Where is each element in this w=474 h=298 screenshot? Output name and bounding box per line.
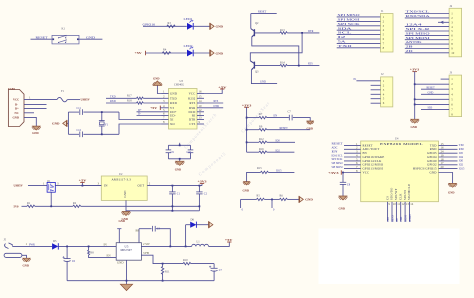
left net labels (332, 143, 343, 169)
svg-text:SPI SCK: SPI SCK (338, 23, 360, 26)
wire pin4 (337, 29, 381, 31)
wire (67, 280, 214, 282)
diode D5 (52, 240, 116, 250)
wire VCC (24, 99, 57, 101)
wire pin3 (421, 88, 449, 90)
row IO2: wire (247, 151, 259, 153)
svg-text:GND: GND (260, 81, 266, 84)
svg-text:VCC: VCC (363, 170, 370, 174)
feedback network (141, 251, 222, 282)
svg-text:GND: GND (117, 261, 124, 265)
ground GND big (120, 284, 132, 290)
svg-text:10: 10 (451, 51, 455, 55)
wire cross-couple upper (250, 33, 302, 61)
svg-text:SD2/HOLD: SD2/HOLD (407, 183, 411, 200)
wire RTS (204, 102, 223, 104)
svg-text:GND: GND (339, 206, 345, 210)
stub mid (271, 199, 273, 208)
svg-text:D6: D6 (191, 218, 195, 221)
svg-text:RTS: RTS (308, 63, 313, 66)
svg-text:EN: EN (332, 151, 338, 154)
wire base Q3 (254, 65, 280, 67)
svg-text:GND: GND (428, 91, 434, 94)
svg-text:ESP8266 MODEL: ESP8266 MODEL (380, 142, 423, 146)
svg-text:RTS: RTS (190, 101, 196, 105)
svg-text:+5V: +5V (218, 85, 228, 89)
svg-text:SPI MOSI: SPI MOSI (406, 37, 430, 40)
svg-text:14: 14 (410, 202, 414, 206)
svg-text:TX0: TX0 (459, 144, 465, 147)
LED row 1 (143, 18, 224, 30)
wire bottom branch (68, 133, 79, 135)
svg-text:5V0: 5V0 (14, 204, 20, 208)
svg-text:SPI MISO: SPI MISO (406, 33, 430, 36)
svg-text:16: 16 (199, 90, 203, 94)
svg-text:IN: IN (104, 184, 108, 188)
wire NC (24, 112, 34, 114)
top stub BS (138, 229, 140, 243)
ground GND left arrow (66, 122, 68, 124)
svg-text:RESET: RESET (427, 86, 436, 89)
power +5V port (220, 88, 224, 90)
svg-text:D+: D+ (138, 109, 142, 112)
fuse F1 (57, 90, 91, 102)
diode D6 catch (185, 225, 187, 247)
wire (79, 38, 102, 40)
wire (83, 133, 119, 135)
ground GND right (449, 183, 457, 187)
svg-text:MOSI: MOSI (405, 215, 408, 222)
wire pin6 (405, 34, 449, 36)
svg-text:TXD: TXD (170, 96, 177, 100)
wire gate (50, 192, 52, 206)
transistor auto-program network (250, 11, 319, 84)
wire (209, 242, 230, 246)
svg-text:RXD: RXD (110, 100, 116, 103)
bottom net labels rotated (387, 214, 412, 222)
svg-text:GND: GND (119, 219, 125, 223)
svg-text:AMS1117-3.3: AMS1117-3.3 (112, 178, 132, 182)
converter U5 MP2307 (88, 219, 142, 291)
stub left (240, 199, 242, 208)
svg-text:SCL: SCL (338, 32, 353, 35)
wire (83, 111, 119, 113)
wire (250, 14, 252, 29)
svg-text:XI: XI (170, 118, 174, 122)
ground GND (307, 121, 313, 124)
svg-text:12: 12 (402, 202, 406, 206)
svg-text:SPI MOSI: SPI MOSI (338, 19, 360, 22)
svg-text:GND: GND (52, 122, 60, 126)
wire base Q2 (254, 32, 280, 34)
wire pin6 (371, 102, 381, 104)
svg-text:GND: GND (411, 125, 417, 129)
IC U3 CH340G (153, 77, 228, 129)
svg-text:LED2: LED2 (184, 45, 194, 48)
svg-text:R18: R18 (127, 99, 132, 102)
capacitor pair C9 C10 (166, 143, 194, 172)
bottom pin numbers (388, 202, 413, 206)
svg-text:D-: D- (138, 113, 141, 116)
svg-text:5A: 5A (338, 41, 346, 44)
svg-text:GND: GND (170, 92, 178, 96)
capacitor C4 bootstrap (139, 226, 170, 247)
svg-text:GND: GND (123, 190, 127, 198)
svg-text:C11: C11 (77, 107, 82, 110)
svg-text:SPI SCK: SPI SCK (332, 158, 343, 161)
ground GND (23, 258, 30, 262)
svg-text:D+: D+ (15, 106, 19, 110)
ground GND power port (208, 221, 210, 228)
svg-text:R12: R12 (259, 138, 264, 141)
left pin names (363, 143, 385, 174)
svg-text:U3: U3 (180, 80, 184, 83)
capacitor C9 (166, 149, 172, 151)
svg-text:SDI/DI: SDI/DI (403, 190, 407, 200)
row IO0: wire (247, 141, 259, 143)
wire emitter Q2 (252, 38, 299, 66)
wire (55, 185, 101, 187)
svg-text:TX0/SCL: TX0/SCL (406, 11, 431, 14)
wire pin6 (415, 103, 449, 105)
wire pin8 (337, 47, 381, 49)
svg-text:GND: GND (153, 77, 159, 81)
wire DSR (204, 107, 223, 109)
resistor R11 vertical (162, 264, 164, 267)
bottom pin names rotated (385, 183, 411, 200)
svg-text:Q3: Q3 (255, 71, 259, 74)
left wires (344, 145, 361, 168)
svg-text:GND: GND (430, 170, 438, 174)
wire pin3 (371, 89, 381, 91)
wire pin5 (415, 98, 449, 100)
wire out (147, 185, 202, 187)
module U4 ESP8266 (328, 138, 465, 222)
svg-text:RESET: RESET (36, 36, 49, 39)
svg-text:DTR: DTR (189, 118, 196, 122)
svg-text:SDA: SDA (338, 27, 352, 30)
wire (247, 172, 261, 181)
ground GND power port (209, 23, 211, 30)
wire (12, 245, 52, 247)
svg-text:MISO: MISO (391, 215, 394, 222)
capacitor C7 output (213, 264, 215, 268)
wire D- (24, 104, 47, 106)
svg-text:13: 13 (406, 202, 410, 206)
ground rail bottom (67, 280, 214, 282)
svg-text:IO15: IO15 (459, 167, 465, 170)
power +3V3 port (201, 183, 203, 185)
R5 R6 row (241, 195, 313, 212)
regulator U2 AMS1117-3.3 (82, 173, 207, 221)
svg-text:TXD: TXD (110, 95, 116, 98)
svg-text:VCC: VCC (13, 98, 19, 102)
wire RXD (106, 102, 137, 104)
pin stubs left (162, 94, 169, 125)
stub up (179, 143, 181, 146)
svg-text:2 SW: 2 SW (143, 242, 150, 246)
wire pin3 (337, 25, 381, 27)
top stub SS to GND (118, 229, 120, 243)
pin stubs right (197, 94, 204, 125)
svg-text:CTS: CTS (189, 122, 195, 126)
svg-text:K1: K1 (62, 28, 66, 31)
Q1 power switch row (14, 179, 201, 209)
wire pin2 (415, 83, 449, 85)
wire pin2 (337, 20, 381, 22)
wire (58, 245, 116, 247)
capacitor C8 (342, 173, 344, 183)
ground GND under U2 (122, 212, 130, 216)
svg-text:IO15: IO15 (276, 170, 282, 173)
wire pin5 (337, 34, 381, 36)
crystal network (52, 107, 187, 137)
svg-text:NC: NC (15, 111, 19, 115)
svg-text:+5V: +5V (79, 179, 88, 183)
svg-text:20: 20 (441, 165, 445, 169)
wire U2 gnd pin (125, 200, 127, 211)
svg-text:R232: R232 (188, 96, 196, 100)
wire (81, 205, 200, 207)
wire pin7 (337, 42, 381, 44)
svg-text:RESET: RESET (258, 11, 267, 14)
wire rail (414, 72, 416, 120)
svg-text:U4: U4 (395, 138, 399, 141)
ground GND (411, 119, 419, 123)
svg-text:+3V3: +3V3 (410, 68, 420, 72)
wire XI jog (119, 112, 162, 119)
svg-text:+5V: +5V (150, 106, 158, 110)
capacitor C2 (198, 186, 200, 192)
wire GND (24, 117, 36, 126)
svg-text:WP: WP (396, 217, 399, 222)
svg-text:C12: C12 (77, 129, 82, 132)
left pin numbers (356, 142, 358, 173)
wire to ground (179, 159, 181, 161)
ground GND (176, 161, 184, 165)
svg-text:13: 13 (199, 116, 203, 120)
wire FB (141, 255, 183, 263)
junction (271, 199, 273, 201)
wire pin7 (421, 108, 449, 110)
svg-text:C10: C10 (187, 151, 192, 154)
wire in (82, 185, 101, 187)
wire (28, 185, 47, 187)
wire emitter Q3 (251, 70, 277, 84)
svg-text:EN: EN (274, 115, 278, 118)
wire TXD (106, 97, 137, 99)
svg-text:HOLD: HOLD (409, 214, 412, 222)
wire pin10 (405, 52, 449, 54)
wire pin4 (421, 93, 449, 95)
wire row2 (22, 205, 28, 207)
wire pin8 (405, 43, 449, 45)
watermark (183, 101, 271, 177)
svg-text:IO4: IO4 (459, 156, 464, 159)
white patch bottom right (319, 229, 460, 285)
svg-text:IO0: IO0 (276, 139, 281, 142)
wire ground rail (126, 210, 199, 212)
svg-text:GND: GND (23, 263, 29, 267)
wire pin9 (405, 48, 449, 50)
wire VCC row with +3V3 (342, 172, 361, 174)
svg-text:2D: 2D (406, 50, 413, 53)
svg-text:TX0: TX0 (338, 45, 354, 48)
svg-text:IO0: IO0 (459, 160, 464, 163)
wire (287, 65, 319, 67)
svg-text:IO5: IO5 (459, 152, 464, 155)
svg-text:RXD: RXD (170, 101, 178, 105)
svg-text:CS: CS (385, 196, 389, 200)
ground GND arrow up (153, 81, 161, 86)
svg-text:11: 11 (397, 202, 400, 206)
svg-text:R16: R16 (259, 148, 264, 151)
svg-text:XO: XO (170, 122, 175, 126)
ground GND power port (209, 50, 211, 57)
wire pin7 (405, 39, 449, 41)
svg-text:ANT0K: ANT0K (406, 41, 422, 44)
connector J2 6-pin (354, 73, 393, 107)
wire left vertical (67, 112, 69, 134)
svg-text:SPI MOSI: SPI MOSI (332, 166, 343, 169)
junction (301, 32, 303, 34)
right pin numbers (441, 142, 445, 169)
capacitor C10 (188, 149, 194, 151)
EN divider loop with resistor R8 (88, 246, 90, 250)
wire VCC to +5V (204, 89, 222, 94)
bottom pin stubs (388, 202, 410, 222)
svg-text:14: 14 (199, 99, 203, 103)
wire pin2 (371, 84, 381, 86)
svg-text:MP2307: MP2307 (121, 248, 133, 252)
svg-text:GND: GND (243, 189, 249, 193)
svg-text:RX0: RX0 (459, 148, 465, 151)
wire (241, 198, 257, 200)
capacitor C1 (171, 186, 173, 192)
svg-text:ADC: ADC (332, 147, 338, 150)
bottom GND pin (126, 260, 128, 284)
wire pin6 (337, 38, 381, 40)
svg-text:RTS: RTS (214, 100, 219, 103)
svg-text:GND: GND (13, 115, 19, 119)
svg-text:SD3: SD3 (428, 107, 433, 110)
switch K1 (31, 28, 103, 44)
svg-text:GND: GND (32, 131, 38, 135)
svg-text:LED1: LED1 (184, 18, 194, 21)
svg-text:RESET: RESET (280, 127, 289, 130)
svg-text:+3V3: +3V3 (328, 171, 339, 175)
svg-text:GND: GND (305, 198, 313, 202)
svg-text:GND: GND (216, 51, 224, 55)
wire UD+ (137, 111, 162, 113)
wire GND pin to ground (157, 85, 161, 93)
svg-text:GND: GND (216, 25, 224, 29)
svg-text:Q2: Q2 (255, 22, 259, 25)
SW output row (141, 218, 233, 247)
pull-down IO15 (243, 167, 295, 193)
svg-text:SPI MISO: SPI MISO (332, 162, 343, 165)
wire pin5 (371, 98, 381, 100)
LED row 2 (135, 45, 224, 57)
svg-text:RX0/SDA: RX0/SDA (406, 15, 430, 18)
svg-text:+3V3: +3V3 (242, 103, 252, 107)
svg-text:SDO/DO: SDO/DO (390, 187, 394, 200)
wire (143, 25, 187, 27)
USB connector J6 (8, 87, 57, 135)
wire (193, 25, 210, 27)
center pin to ground (22, 255, 27, 258)
svg-text:IO2: IO2 (276, 149, 281, 152)
svg-text:CH340G: CH340G (174, 84, 184, 87)
svg-text:U2: U2 (119, 173, 123, 176)
wire (287, 32, 319, 34)
wire (67, 99, 80, 101)
svg-text:R15: R15 (257, 167, 262, 170)
wire pin4 (405, 26, 449, 28)
svg-text:+3V3: +3V3 (198, 180, 208, 184)
power +5V port (227, 241, 231, 243)
wire (31, 38, 52, 40)
svg-text:BS: BS (136, 229, 140, 233)
svg-text:USB5V: USB5V (81, 98, 91, 102)
svg-text:SPI X-R: SPI X-R (406, 28, 431, 31)
wire pin5 (405, 30, 449, 32)
wire pin2 (405, 17, 449, 19)
wire pin3 no-connect (438, 21, 449, 23)
svg-text:+5V: +5V (135, 51, 143, 55)
svg-text:PWR: PWR (29, 243, 35, 246)
svg-text:10: 10 (393, 202, 397, 206)
svg-text:GND: GND (86, 36, 95, 39)
connector J4 10-pin (405, 5, 462, 57)
connector J3 8-pin (410, 68, 462, 129)
svg-text:GND: GND (448, 190, 454, 194)
svg-text:CLK: CLK (398, 193, 402, 200)
wire D+ (24, 107, 47, 109)
wire SW (141, 245, 191, 247)
svg-text:GND: GND (175, 168, 181, 172)
row RESET: wire (247, 129, 259, 131)
svg-text:CLK: CLK (400, 217, 403, 222)
svg-text:DTR: DTR (308, 30, 314, 33)
TXD RXD wires (106, 95, 162, 116)
svg-text:USB5V: USB5V (14, 184, 24, 188)
wire pin1 (337, 16, 381, 18)
ground GND power port (298, 196, 300, 203)
wire (193, 52, 210, 54)
svg-text:RESET: RESET (332, 143, 343, 146)
svg-text:CS0: CS0 (387, 217, 390, 222)
svg-text:R11: R11 (165, 270, 170, 273)
switch K1 body (52, 35, 79, 44)
ground GND (33, 126, 41, 130)
svg-text:USB1: USB1 (8, 87, 16, 91)
svg-text:DTR: DTR (214, 105, 220, 108)
DC jack J5 (4, 239, 53, 268)
wire XO jog (119, 124, 162, 134)
capacitor C6 (63, 246, 76, 280)
svg-text:15: 15 (199, 95, 203, 99)
svg-text:3 FB: 3 FB (143, 251, 149, 255)
wire UD- (137, 115, 162, 117)
svg-text:IO2: IO2 (459, 164, 464, 167)
svg-text:R10: R10 (183, 259, 188, 262)
wire pin1 (405, 13, 449, 15)
pull-up rail +3V3 (242, 103, 314, 153)
wire loop (168, 144, 190, 146)
right wires (439, 145, 458, 168)
svg-text:SPI MISO: SPI MISO (338, 14, 360, 17)
